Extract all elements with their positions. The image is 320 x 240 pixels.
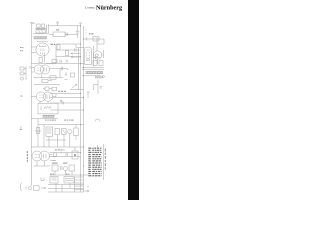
- bottom box B2: [64, 177, 74, 184]
- wire V1 cathode lead: [31, 52, 36, 54]
- label 104: [89, 33, 90, 34]
- wire T2 drop: [94, 80, 99, 95]
- wire bus y50: [56, 49, 81, 51]
- label above: [55, 149, 57, 150]
- resistor R13 on bus: [54, 153, 57, 156]
- resistor R2: [93, 37, 99, 41]
- connector box: [34, 186, 40, 190]
- hatch core T1b above tube V1: [37, 40, 48, 42]
- wire HT rail A: [80, 23, 82, 192]
- tick: [60, 152, 62, 154]
- capacitor C11: [61, 166, 63, 170]
- label above: [50, 174, 52, 175]
- wire bottom buses: [48, 185, 84, 192]
- trimmer arrows: [71, 54, 81, 58]
- label AL4: [51, 44, 54, 45]
- bottom box B1: [50, 177, 58, 184]
- wire bus y124.6: [38, 124, 84, 126]
- capacitor C3: [76, 26, 79, 38]
- capacitor C6: [61, 67, 62, 71]
- wire V4 grid: [31, 96, 36, 98]
- fuse F1: [74, 128, 78, 136]
- resistor R11: [71, 73, 75, 77]
- wire screen rail: [77, 48, 79, 90]
- wire bus y84.5: [34, 84, 61, 86]
- tick pair: [66, 60, 69, 62]
- lamp circle: [64, 167, 68, 171]
- wire drops V4: [40, 101, 48, 103]
- stub: [87, 92, 90, 98]
- wire drop x60: [59, 69, 61, 78]
- rotated note: [105, 149, 106, 170]
- wire V1 grid lead: [31, 46, 36, 48]
- resistor R6: [50, 76, 56, 79]
- wire V1 bottom bus: [31, 63, 84, 65]
- wire bus y56: [56, 56, 81, 58]
- antenna curve: [21, 183, 22, 192]
- capacitor C2 stub: [56, 22, 58, 26]
- wire AVC line: [84, 38, 105, 40]
- resistor R1: [53, 32, 65, 37]
- dial lamp La: [94, 51, 102, 59]
- resistor R3 cathode: [39, 58, 42, 63]
- oscillator coil box L1: [38, 103, 58, 114]
- parts list text block: [88, 148, 101, 177]
- wire top rail: [49, 25, 81, 27]
- wire bus y77.8: [34, 77, 64, 79]
- wire V3 cathode drop: [41, 74, 43, 78]
- capacitor C12: [60, 60, 61, 63]
- wire HT rail B: [83, 26, 85, 192]
- label smudges row F: [52, 163, 58, 164]
- label row E: [45, 120, 47, 121]
- svg-text:Lorenz: Lorenz: [85, 6, 95, 10]
- wire top lead: [31, 22, 35, 24]
- junction dots rails: [80, 25, 84, 175]
- resistor R5: [66, 51, 69, 56]
- wire V3 anode: [50, 68, 66, 70]
- wire bus y75.5: [82, 75, 100, 77]
- arrow lead: [41, 187, 47, 189]
- input jacks left: [20, 67, 24, 70]
- hatch core T1: [34, 37, 48, 39]
- capacitor C13: [66, 153, 67, 156]
- wire V5 drops: [37, 161, 45, 166]
- wire stub y160.5: [50, 160, 56, 162]
- resistor R4: [57, 45, 60, 50]
- tick marks: [65, 72, 68, 80]
- resistor row R12: [52, 60, 57, 63]
- wire tick: [93, 56, 101, 59]
- pickup circle: [28, 187, 31, 190]
- rotated number 1697: [27, 151, 28, 162]
- label row: [58, 91, 60, 92]
- tube V2 EBF: [85, 47, 92, 65]
- wire verticals bottom: [56, 183, 70, 192]
- resistor R7: [42, 79, 48, 82]
- wire bus rows mid: [50, 94, 84, 110]
- capacitor C8 above: [45, 87, 49, 90]
- tube V5 ECL: [32, 151, 42, 161]
- wire V5 leads: [31, 153, 80, 157]
- potentiometer P1 arrow: [72, 84, 77, 88]
- wire left rail: [30, 23, 32, 186]
- wire bus y44: [56, 43, 81, 45]
- capacitor C1: [66, 33, 68, 37]
- wire IF double bus: [82, 68, 104, 70]
- wire y166: [34, 165, 51, 167]
- tube V1 AL4: [36, 43, 49, 56]
- wire speaker bottom: [33, 33, 49, 35]
- tube V4 ECH: [36, 92, 45, 101]
- wire V2 grid: [76, 44, 85, 48]
- capacitor C7: [62, 102, 63, 105]
- wire drop x44: [43, 125, 45, 147]
- wire mid top bus: [46, 63, 56, 65]
- label W left: [20, 129, 22, 130]
- wire drops to y175: [55, 171, 72, 176]
- mains transformer Tr: [46, 127, 52, 136]
- wire drops: [49, 134, 70, 147]
- wire bus y175: [50, 174, 88, 176]
- wire bus y89.5: [70, 89, 84, 91]
- capacitor C9: [62, 129, 67, 135]
- ground tick: [25, 187, 27, 190]
- IF transformer T2 windings: [93, 61, 97, 66]
- svg-text:Nürnberg: Nürnberg: [96, 4, 123, 11]
- wire bus y147: [31, 146, 83, 148]
- label smudge R1: [56, 29, 59, 30]
- separator line: [103, 144, 105, 180]
- arrow tap: [66, 68, 68, 70]
- wire corner to lamp: [97, 38, 104, 52]
- arc top: [95, 119, 100, 121]
- component row F: resistor R9: [52, 165, 58, 171]
- heater ladder coil L2: [75, 177, 84, 190]
- wire drop x38: [37, 119, 39, 147]
- capacitor C4: [75, 49, 77, 52]
- scale lamp circle: [68, 129, 72, 133]
- arrow chassis: [84, 187, 89, 193]
- label 2 lines left: [20, 47, 22, 48]
- capacitor C5 to rail: [29, 67, 34, 68]
- switch S1: [55, 129, 60, 135]
- wire bus y118.6: [31, 118, 58, 120]
- IF transformer T2 secondary zigzag: [95, 76, 103, 79]
- scan edge black bar: [128, 0, 139, 200]
- label a: [21, 96, 23, 97]
- hatch core L1: [43, 115, 55, 117]
- tube V3 EF9: [34, 65, 43, 74]
- wire V4 anode: [53, 94, 56, 97]
- output transformer T1: [37, 24, 41, 27]
- resistor R10: [69, 165, 75, 171]
- hatch core T2: [86, 71, 104, 73]
- wire y140: [46, 139, 66, 141]
- node dots rail: [85, 30, 88, 35]
- electrolytic C10: [72, 151, 78, 159]
- resistor R8: [36, 128, 39, 134]
